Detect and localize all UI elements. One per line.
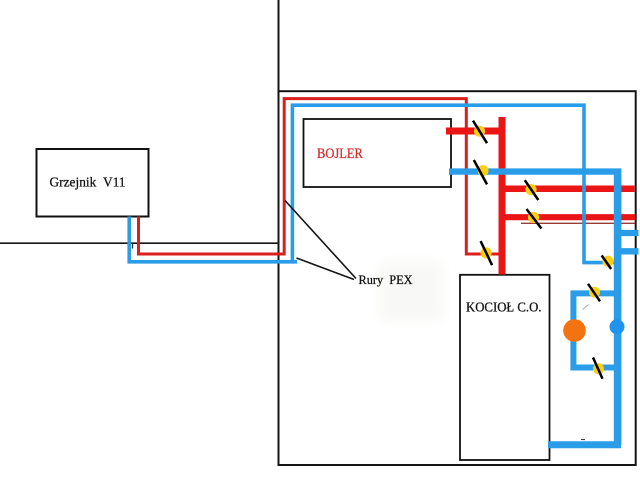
smudge near Rury PEX [380,262,442,320]
valve on thick blue horizontal [474,160,489,184]
svg-text:BOJLER: BOJLER [317,146,363,162]
wall vertical line [278,0,280,91]
valve on pump loop bottom [593,358,604,379]
boiler box BOJLER [304,119,452,187]
valve on pump loop top [588,284,600,302]
valve on red pipe 1 [525,180,539,200]
small check mark artifact [583,305,589,310]
thick blue vertical pipe right [614,169,622,446]
pump loop left pipe [570,291,576,371]
wall horizontal line left [0,242,278,244]
thick blue horizontal pipe from BOJLER [449,168,621,174]
red pipe 2 to right wall [499,214,635,220]
thin blue pipe loop (radiator return) [129,105,616,262]
svg-text:KOCIOŁ C.O.: KOCIOŁ C.O. [466,300,542,315]
pump loop bottom pipe [571,365,618,371]
thin dark red line [521,222,635,224]
red pipe 1 to right wall [499,185,635,192]
pump loop top pipe [571,290,618,296]
radiator box Grzejnik V11 [37,149,149,217]
blue elbow overshoot [292,260,297,264]
wall tick mark [132,243,134,249]
thick red vertical pipe to KOCIOL [499,117,506,275]
blue stub lower right [617,248,639,254]
room outline [279,91,636,465]
blue bottom run to KOCIOL [548,441,621,448]
pointer line to blue pipe [297,258,355,280]
pointer line to red pipe [285,201,356,279]
svg-text:Grzejnik V11: Grzejnik V11 [50,175,126,190]
valve on thin blue pipe right [602,255,614,269]
valve on thin red pipe near KOCIOL [480,241,492,265]
valve on red pipe 2 [527,209,542,229]
blue circle on vertical pipe [610,319,625,334]
valve on red stub [473,121,487,144]
pump orange circle [563,319,586,342]
small dash artifact [581,439,585,441]
svg-text:Rury PEX: Rury PEX [359,272,414,287]
blue stub upper right [617,230,639,236]
KOCIOL C.O. box [460,275,550,460]
red stub from BOJLER [446,128,506,135]
thin red pipe loop (radiator supply) [139,99,504,254]
